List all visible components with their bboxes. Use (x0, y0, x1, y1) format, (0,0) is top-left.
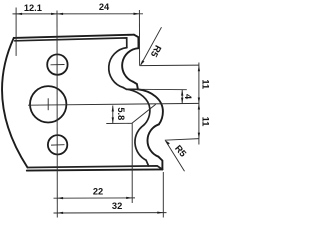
32 dimension line (54, 212, 167, 214)
arrow 12.1 right (51, 13, 57, 15)
cove2 center horizontal extension (165, 139, 199, 141)
lower cove bevel arc (135, 125, 146, 160)
arrow 11 top up (198, 65, 200, 71)
long horizontal centerline through large hole (28, 103, 199, 105)
extension line (32) (162, 172, 164, 218)
arrow R5 upper leader tip (140, 60, 144, 65)
R5 upper leader (141, 27, 162, 65)
svg-text:11: 11 (201, 79, 211, 89)
top dimension line (13, 13, 144, 15)
bottom-right corner bevel (158, 157, 162, 170)
svg-text:4: 4 (183, 94, 193, 100)
step extension line (4) (138, 88, 187, 90)
upper cove bevel arc (109, 48, 127, 88)
upper cove edge arc R5 (122, 48, 138, 81)
arrow 32 right (157, 211, 163, 213)
arrow 12.1 left (16, 13, 22, 15)
arrow 11b mid up (198, 104, 200, 110)
arrow 22 left (57, 197, 63, 199)
11/11 dimension line (198, 63, 200, 145)
large hole (30, 86, 66, 122)
arrow 4 down (181, 98, 183, 104)
top cutting edge line (15, 38, 127, 48)
knife top back edge (14, 35, 134, 38)
knife bottom front edge (27, 169, 163, 170)
R5 lower leader (166, 141, 185, 172)
ogee bevel curve (129, 89, 150, 125)
arrow 11b bottom down (198, 133, 200, 139)
extension line (22) (131, 123, 133, 203)
ogee edge curve (138, 89, 163, 124)
arrow 4 up (181, 90, 183, 96)
vertical centerline (56, 11, 58, 218)
arrow 5.8 down (112, 117, 114, 123)
arrow 32 left (57, 212, 63, 214)
svg-text:5.8: 5.8 (116, 107, 126, 120)
bottom bevel back line (28, 166, 163, 169)
hole crosshair ticks (51, 64, 65, 66)
arrow 24 right (134, 13, 140, 15)
svg-text:22: 22 (93, 186, 103, 196)
middle step edge (133, 82, 138, 90)
step bevel lines (123, 88, 137, 90)
lower small hole (48, 135, 67, 154)
corner bevel diagonal (146, 160, 149, 166)
5.8 lower reference and leader to inflection (106, 104, 156, 123)
svg-text:24: 24 (99, 2, 110, 12)
svg-text:12.1: 12.1 (24, 3, 42, 13)
extension line right (24) to cove1 center (138, 10, 140, 66)
arrow 22 right (126, 197, 132, 199)
svg-text:32: 32 (112, 201, 122, 211)
svg-text:11: 11 (201, 117, 211, 127)
cove1 center horizontal extension (140, 64, 200, 67)
lower cove edge arc R5 (147, 124, 158, 156)
arrow 5.8 up (112, 106, 114, 112)
knife top-right corner bevel (134, 35, 139, 49)
arrow 11 mid down (198, 98, 200, 104)
5.8 dimension line (112, 106, 114, 124)
arrow R5 lower leader tip (165, 140, 170, 145)
4 dimension line (181, 90, 183, 104)
knife left edge curve (2, 38, 27, 168)
22 dimension line (54, 197, 136, 199)
arrow 24 left (57, 13, 63, 15)
extension line left (12.1) (15, 8, 17, 56)
upper small hole (47, 54, 67, 74)
